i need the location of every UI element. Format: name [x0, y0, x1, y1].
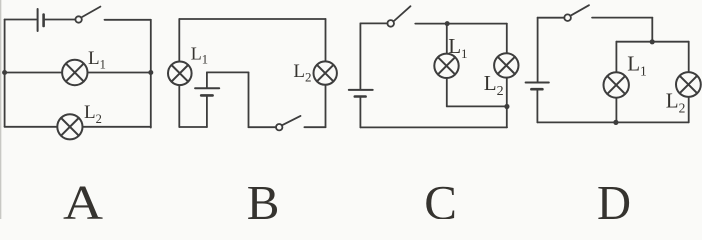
lamp L1 (circuit B): [168, 62, 192, 86]
node dot A-left: [2, 70, 7, 75]
svg-text:A: A: [63, 175, 104, 219]
wire C bottom: [360, 126, 507, 128]
wire C top-left: [360, 22, 387, 24]
switch S2 (circuit B, open): [276, 116, 301, 130]
wire B bottom-left: [179, 126, 207, 128]
wire C right vertical: [506, 24, 508, 128]
node dot C-right: [504, 104, 509, 109]
lamp L1 (circuit A): [62, 60, 87, 85]
wire B left vertical: [178, 19, 180, 127]
wire B right vertical: [325, 19, 327, 127]
wire D left vertical upper: [537, 18, 539, 82]
node dot A-right: [148, 70, 153, 75]
node dot C-top: [445, 21, 450, 26]
wire B top: [179, 18, 325, 20]
wire D top-left: [538, 17, 565, 19]
wire D bottom: [537, 121, 688, 123]
wire B jog top: [207, 71, 249, 73]
wire A middle branch: [5, 72, 151, 74]
battery B4 (circuit D): [526, 83, 549, 90]
wire B switch to right: [304, 126, 325, 128]
battery B3 (circuit C): [349, 90, 373, 97]
battery B1 (circuit A): [38, 9, 44, 31]
switch S3 (circuit C, open): [387, 6, 410, 27]
svg-text:B: B: [247, 175, 280, 219]
svg-text:D: D: [597, 175, 631, 219]
switch S1 (circuit A, open): [75, 7, 100, 23]
lamp L2 (circuit D): [676, 72, 701, 97]
wire D switch to corner: [592, 17, 652, 19]
wire C middle branch bottom: [447, 105, 507, 107]
scan edge artifact left: [0, 0, 2, 219]
wire D branch left vertical: [615, 42, 617, 123]
wire D branch top horizontal: [616, 41, 688, 43]
battery B2 (circuit B): [195, 72, 219, 127]
wire C left vertical lower: [359, 98, 361, 128]
wire B jog right vertical: [248, 72, 250, 127]
lamp L2 (circuit B): [314, 61, 337, 84]
lamp L1 (circuit D): [604, 72, 629, 97]
wire D feed vertical: [651, 18, 653, 42]
lamp L2 (circuit A): [57, 114, 82, 139]
node dot D-top: [650, 39, 655, 44]
wire C middle branch vertical: [446, 24, 448, 107]
node dot D-bottom: [613, 120, 618, 125]
lamp L2 (circuit C): [494, 53, 518, 77]
wire D branch right vertical: [688, 42, 690, 123]
wire A top-left: [5, 19, 37, 21]
wire C left vertical upper: [359, 23, 361, 89]
wire A bottom: [5, 126, 151, 128]
wire B bottom to switch: [249, 126, 276, 128]
wire C switch to right corner: [415, 23, 507, 25]
wire D left vertical lower: [536, 90, 538, 122]
svg-text:C: C: [424, 175, 457, 219]
wire A top-right: [105, 19, 151, 21]
lamp L1 (circuit C): [434, 54, 458, 78]
wire A left vertical: [4, 20, 6, 127]
switch S4 (circuit D, open): [564, 5, 589, 21]
wire A right vertical: [150, 20, 152, 128]
wire A battery to switch: [45, 19, 76, 21]
